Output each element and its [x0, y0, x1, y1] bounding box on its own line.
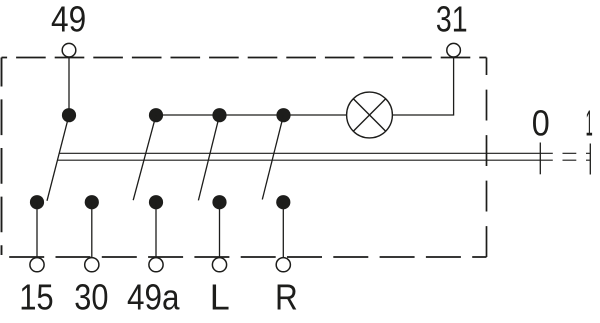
terminal circle 31: [447, 43, 461, 57]
indicator lamp E1: [347, 92, 393, 138]
position tick 1: [589, 144, 591, 175]
switch contact arm 3: [198, 115, 219, 200]
mechanical linkage lower line: [57, 159, 590, 161]
wire node 15 to terminal 15: [36, 202, 38, 258]
svg-text:1: 1: [586, 103, 593, 144]
wire 49 to node A: [68, 57, 70, 115]
svg-text:15: 15: [19, 277, 54, 318]
svg-text:49a: 49a: [127, 277, 180, 318]
enclosure dashed border top edge: [2, 57, 487, 59]
node A: [62, 108, 76, 122]
wire node L to terminal L: [219, 202, 221, 258]
node C: [212, 108, 226, 122]
terminal circle 30: [85, 258, 99, 272]
wire node R to terminal R: [282, 202, 284, 258]
node 49a: [149, 195, 163, 209]
wire node 49a to terminal 49a: [155, 202, 157, 258]
wire 31 to lamp: [393, 57, 454, 115]
terminal circle 15: [30, 258, 44, 272]
switch contact arm 1: [47, 115, 69, 201]
position tick 0: [539, 143, 541, 175]
terminal circle 49a: [149, 258, 163, 272]
enclosure dashed border left edge: [1, 58, 3, 256]
node 15: [30, 195, 44, 209]
mechanical linkage upper line: [59, 152, 590, 154]
node D: [276, 108, 290, 122]
svg-text:31: 31: [436, 0, 468, 40]
enclosure dashed border bottom edge: [2, 256, 487, 258]
terminal circle R: [276, 258, 290, 272]
node R: [276, 195, 290, 209]
enclosure dashed border right edge: [486, 58, 488, 258]
switch contact arm 4: [262, 115, 283, 199]
wire node 30 to terminal 30: [91, 202, 93, 258]
svg-text:0: 0: [532, 103, 550, 144]
terminal circle 49: [62, 43, 76, 57]
svg-text:30: 30: [74, 277, 108, 318]
svg-text:49: 49: [51, 0, 86, 40]
node B: [149, 108, 163, 122]
switch contact arm 2: [133, 115, 156, 200]
wire bus nodes B C D to lamp: [156, 114, 346, 116]
terminal circle L: [212, 258, 226, 272]
node 30: [85, 195, 99, 209]
node L: [212, 195, 226, 209]
svg-text:L: L: [210, 277, 230, 318]
svg-text:R: R: [275, 277, 298, 318]
